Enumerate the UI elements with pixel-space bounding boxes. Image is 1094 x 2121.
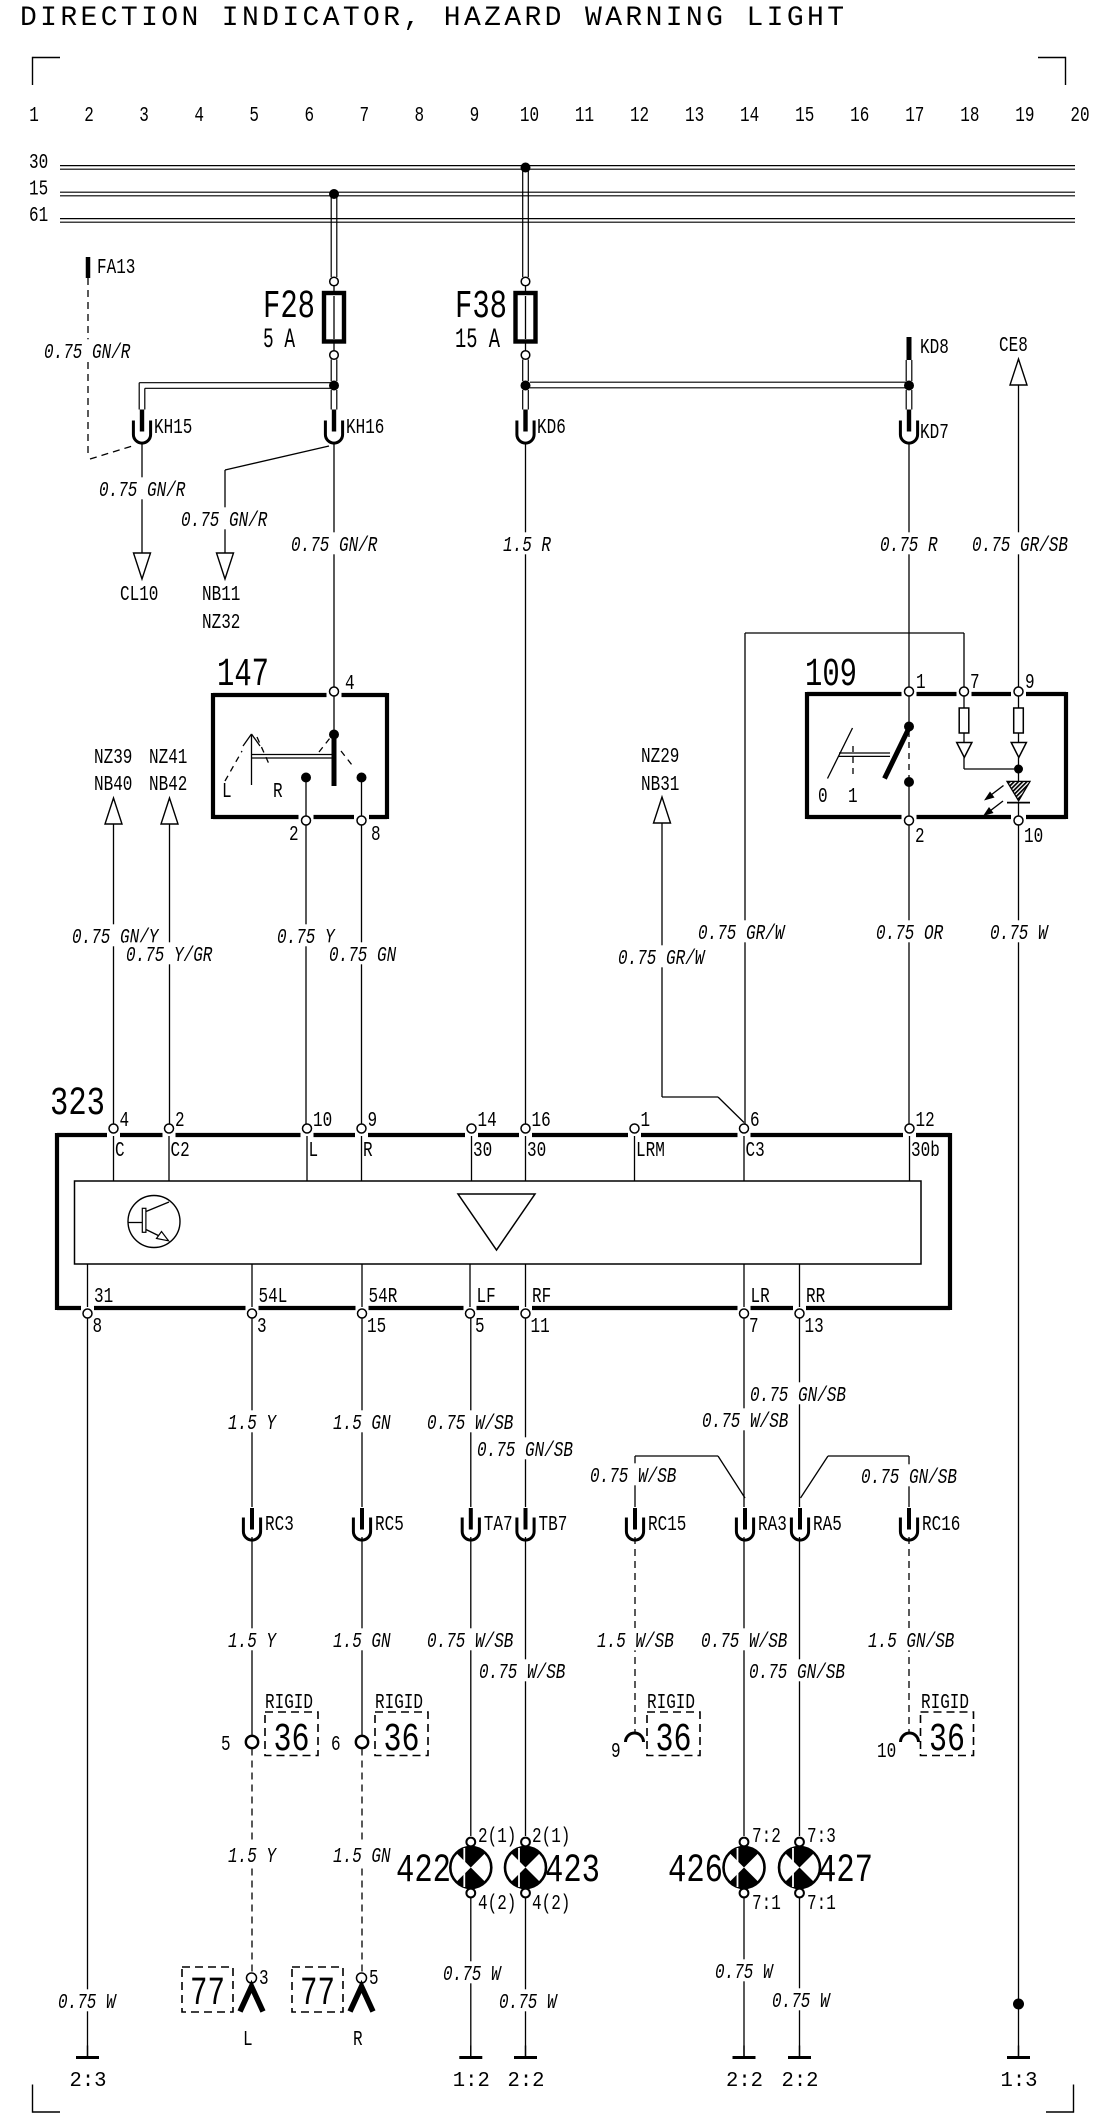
svg-text:0: 0 bbox=[818, 786, 828, 809]
svg-text:77: 77 bbox=[300, 1972, 335, 2017]
svg-text:1.5 GN/SB: 1.5 GN/SB bbox=[868, 1631, 954, 1654]
svg-text:7:1: 7:1 bbox=[752, 1893, 781, 1916]
wire RC15 to 36-9 dashed bbox=[634, 1537, 636, 1732]
terminal 2:2 c bbox=[782, 2046, 819, 2094]
svg-text:1.5 GN: 1.5 GN bbox=[333, 1631, 391, 1654]
svg-text:7: 7 bbox=[360, 105, 370, 128]
svg-text:0.75 W: 0.75 W bbox=[499, 1992, 558, 2015]
svg-text:20: 20 bbox=[1070, 105, 1089, 128]
svg-text:31: 31 bbox=[94, 1286, 113, 1309]
svg-text:2:3: 2:3 bbox=[70, 2070, 107, 2093]
svg-text:0.75 W: 0.75 W bbox=[772, 1991, 831, 2014]
323 top pin 4 C bbox=[109, 1110, 129, 1163]
wire RA5 to lamp427 bbox=[799, 1537, 801, 1836]
svg-text:36: 36 bbox=[929, 1718, 965, 1763]
svg-text:RA5: RA5 bbox=[813, 1514, 842, 1537]
label 0.75 W/SB a bbox=[425, 1410, 516, 1436]
junction at KD7 bbox=[904, 381, 914, 391]
harness 77 pin5 bbox=[292, 1967, 379, 2017]
lamp 427 bbox=[779, 1838, 873, 1898]
323 triangle bbox=[458, 1194, 535, 1250]
label 1.5 Y a bbox=[226, 1410, 279, 1436]
wire KD6 to 323 pin16 bbox=[525, 444, 527, 1125]
svg-text:LF: LF bbox=[477, 1286, 496, 1309]
svg-text:0.75 W/SB: 0.75 W/SB bbox=[427, 1413, 513, 1436]
wire RC5 to 36-6 bbox=[361, 1537, 363, 1735]
svg-text:DIRECTION INDICATOR, HAZARD WA: DIRECTION INDICATOR, HAZARD WARNING LIGH… bbox=[20, 3, 844, 34]
svg-text:18: 18 bbox=[960, 105, 979, 128]
lamp 422 bbox=[396, 1838, 491, 1898]
switch 109 box bbox=[805, 653, 1066, 819]
wire 147 pin8 to 323 pin9 bbox=[361, 825, 363, 1124]
connector KD6 bbox=[517, 410, 566, 444]
lamp 426 bbox=[668, 1838, 765, 1898]
column ruler bbox=[29, 105, 1089, 128]
147 L R labels bbox=[222, 781, 283, 804]
svg-text:0.75 W: 0.75 W bbox=[443, 1964, 502, 1987]
323 top pin 16 30 bbox=[521, 1110, 551, 1163]
junction below F38 bbox=[521, 381, 531, 391]
svg-text:CE8: CE8 bbox=[999, 335, 1028, 358]
bus 61 bbox=[29, 205, 1075, 228]
wire 109 pin10 down bbox=[1018, 825, 1020, 2056]
wire junction to KH16 bbox=[331, 390, 337, 410]
147 switch lever bbox=[329, 730, 339, 787]
connector KH15 bbox=[133, 410, 192, 444]
109 diode pin9 bbox=[1011, 743, 1026, 766]
svg-text:3: 3 bbox=[259, 1968, 269, 1991]
323 bottom pin 8 31 bbox=[83, 1286, 113, 1339]
svg-text:1.5 Y: 1.5 Y bbox=[228, 1631, 277, 1654]
svg-text:7: 7 bbox=[749, 1316, 759, 1339]
svg-text:RF: RF bbox=[532, 1286, 551, 1309]
label 1.5 GN b bbox=[331, 1628, 394, 1654]
wire 323 pin15 to RC5 bbox=[361, 1319, 363, 1508]
harness 36 pin9 bbox=[611, 1692, 700, 1764]
label 1.5 W/SB bbox=[595, 1628, 677, 1654]
svg-text:5: 5 bbox=[475, 1316, 485, 1339]
svg-text:8: 8 bbox=[371, 824, 381, 847]
svg-text:15: 15 bbox=[367, 1316, 386, 1339]
title bbox=[20, 3, 844, 34]
wire 36-5 to 77-3 dashed bbox=[251, 1749, 253, 1973]
109 LED arrows bbox=[983, 786, 1004, 817]
wire junction to KD6 bbox=[523, 390, 529, 410]
svg-text:427: 427 bbox=[818, 1849, 873, 1894]
svg-text:61: 61 bbox=[29, 205, 48, 228]
323 transistor bbox=[128, 1196, 180, 1248]
lamp427 pin labels bbox=[807, 1826, 836, 1916]
svg-text:10: 10 bbox=[520, 105, 539, 128]
label 0.75 W 31 bbox=[56, 1989, 119, 2015]
109 switch bbox=[885, 696, 915, 816]
svg-text:NB40: NB40 bbox=[94, 774, 132, 797]
svg-text:FA13: FA13 bbox=[97, 257, 135, 280]
wire KD7 to 109 pin1 bbox=[908, 444, 910, 688]
svg-text:0.75 Y: 0.75 Y bbox=[277, 927, 336, 950]
svg-text:1:3: 1:3 bbox=[1001, 2070, 1038, 2093]
svg-text:0.75 GN/SB: 0.75 GN/SB bbox=[749, 1662, 845, 1685]
bus 15 bbox=[29, 179, 1075, 202]
label 0.75 GR/W c3 bbox=[696, 920, 787, 946]
svg-text:3: 3 bbox=[257, 1316, 267, 1339]
svg-text:1.5 R: 1.5 R bbox=[503, 535, 551, 558]
arrow NZ41 NB42 bbox=[149, 747, 187, 824]
109 resistor pin9 bbox=[1014, 696, 1024, 743]
label 0.75 GN/Y bbox=[70, 924, 161, 950]
svg-text:13: 13 bbox=[685, 105, 704, 128]
wire 323 pin13 to RA5 bbox=[799, 1319, 801, 1508]
terminal 1:2 bbox=[453, 2046, 490, 2094]
svg-text:CL10: CL10 bbox=[120, 584, 158, 607]
svg-text:36: 36 bbox=[274, 1718, 310, 1763]
wire 323 pin5 to TA7 bbox=[470, 1319, 472, 1508]
svg-text:8: 8 bbox=[415, 105, 425, 128]
svg-text:7:3: 7:3 bbox=[807, 1826, 836, 1849]
323 bottom pin 3 54L bbox=[248, 1286, 288, 1339]
svg-text:5: 5 bbox=[249, 105, 259, 128]
wire 323 pin7 to RA3 bbox=[743, 1319, 745, 1508]
svg-text:2(1): 2(1) bbox=[478, 1826, 516, 1849]
connector RC5 bbox=[353, 1508, 403, 1540]
connector RA3 bbox=[736, 1508, 786, 1540]
svg-text:11: 11 bbox=[531, 1316, 550, 1339]
junction bottom right bbox=[1013, 1999, 1024, 2010]
label 0.75 GN/SB d bbox=[747, 1659, 848, 1685]
svg-text:7:2: 7:2 bbox=[752, 1826, 781, 1849]
frame corner top-left bbox=[33, 57, 61, 85]
wire F38 to junction bbox=[523, 360, 529, 382]
connector RC16 bbox=[900, 1508, 960, 1540]
svg-text:KD8: KD8 bbox=[920, 337, 949, 360]
109 LED bbox=[1007, 769, 1030, 816]
wire lamp426 down bbox=[743, 1897, 745, 2056]
svg-text:NZ41: NZ41 bbox=[149, 747, 187, 770]
svg-text:0.75 GN/R: 0.75 GN/R bbox=[181, 510, 268, 533]
svg-text:5 A: 5 A bbox=[263, 325, 295, 356]
terminal 1:3 bbox=[1001, 2046, 1038, 2094]
chevron L bbox=[240, 1987, 263, 2053]
svg-text:16: 16 bbox=[850, 105, 869, 128]
wire TB7 to lamp423 bbox=[525, 1537, 527, 1836]
label 0.75 W/SB f bbox=[699, 1628, 790, 1654]
svg-text:L: L bbox=[243, 2029, 253, 2052]
terminal FA13 bbox=[88, 257, 135, 280]
323 bottom pin 5 LF bbox=[466, 1286, 496, 1339]
wire lamp427 down bbox=[799, 1897, 801, 2056]
svg-text:L: L bbox=[222, 781, 232, 804]
svg-text:422: 422 bbox=[396, 1849, 451, 1894]
svg-text:14: 14 bbox=[740, 105, 759, 128]
label 0.75 R bbox=[878, 532, 941, 558]
connector TB7 bbox=[517, 1508, 567, 1540]
wire tap to RC16 bbox=[801, 1456, 910, 1507]
arrow NZ39 NB40 bbox=[94, 747, 132, 824]
svg-text:5: 5 bbox=[221, 1734, 231, 1757]
wire 109 pin2 to 323 pin12 bbox=[908, 825, 910, 1124]
svg-text:54L: 54L bbox=[259, 1286, 288, 1309]
svg-text:9: 9 bbox=[470, 105, 480, 128]
connector RA5 bbox=[791, 1508, 841, 1540]
svg-text:0.75 W: 0.75 W bbox=[58, 1992, 117, 2015]
connector KD7 bbox=[900, 410, 948, 446]
svg-text:36: 36 bbox=[384, 1718, 420, 1763]
svg-text:4(2): 4(2) bbox=[478, 1893, 516, 1916]
323 top pin 9 R bbox=[357, 1110, 377, 1163]
svg-text:F28: F28 bbox=[263, 285, 315, 330]
wire 323 pin8 down bbox=[87, 1319, 89, 2057]
connector RC15 bbox=[626, 1508, 686, 1540]
label 0.75 W ra5 bbox=[770, 1988, 833, 2014]
wire 109 pin7 branch bbox=[745, 633, 964, 1124]
lamp422 pin labels bbox=[478, 1826, 516, 1916]
chevron R bbox=[350, 1987, 373, 2053]
svg-text:1: 1 bbox=[29, 105, 39, 128]
wire 147 pin2 to 323 pin10 bbox=[305, 825, 307, 1124]
svg-text:2(1): 2(1) bbox=[532, 1826, 570, 1849]
svg-text:C3: C3 bbox=[746, 1140, 765, 1163]
svg-text:1: 1 bbox=[848, 786, 858, 809]
323 top pin 10 L bbox=[303, 1110, 333, 1163]
label 0.75 GN/R (KH16) bbox=[289, 532, 380, 558]
lamp423 pin labels bbox=[532, 1826, 570, 1916]
svg-text:0.75 W/SB: 0.75 W/SB bbox=[427, 1631, 513, 1654]
label 0.75 Y/GR bbox=[124, 942, 215, 968]
wire bus30 to F38 bbox=[523, 170, 529, 278]
harness 36 pin6 bbox=[331, 1692, 428, 1763]
wire lamp423 down bbox=[525, 1897, 527, 2056]
323 bottom pin 7 LR bbox=[740, 1286, 770, 1339]
wire 323 pin11 to TB7 bbox=[525, 1319, 527, 1508]
label 0.75 GR/W lrm bbox=[616, 945, 707, 971]
svg-text:14: 14 bbox=[478, 1110, 497, 1133]
flasher 323 box bbox=[50, 1082, 950, 1310]
connector KH16 bbox=[325, 410, 384, 444]
svg-text:2:2: 2:2 bbox=[726, 2070, 763, 2093]
svg-text:R: R bbox=[363, 1140, 373, 1163]
svg-text:10: 10 bbox=[313, 1110, 332, 1133]
wire 323 pin3 to RC3 bbox=[251, 1319, 253, 1508]
svg-text:0.75 W/SB: 0.75 W/SB bbox=[590, 1466, 676, 1489]
label 0.75 W/SB e bbox=[477, 1659, 568, 1685]
label 0.75 GN/SB a bbox=[475, 1437, 576, 1463]
wire RA3 to lamp426 bbox=[743, 1537, 745, 1836]
svg-text:2: 2 bbox=[84, 105, 94, 128]
svg-text:F38: F38 bbox=[455, 285, 507, 330]
svg-text:RC16: RC16 bbox=[922, 1514, 960, 1537]
svg-text:30: 30 bbox=[29, 152, 48, 175]
109 resistor pin7 bbox=[959, 696, 969, 743]
svg-text:4: 4 bbox=[194, 105, 204, 128]
109 pin 9 bbox=[1014, 672, 1035, 696]
svg-text:NZ32: NZ32 bbox=[202, 612, 240, 635]
harness 36 pin10 bbox=[877, 1692, 974, 1764]
connector KD8 bbox=[909, 337, 949, 360]
svg-text:12: 12 bbox=[916, 1110, 935, 1133]
svg-text:KD7: KD7 bbox=[920, 422, 949, 445]
terminal 2:3 bbox=[70, 2046, 107, 2094]
switch 147 box bbox=[213, 653, 387, 819]
wire lamp422 down bbox=[470, 1897, 472, 2056]
svg-text:16: 16 bbox=[532, 1110, 551, 1133]
svg-text:0.75 GN/R: 0.75 GN/R bbox=[99, 480, 186, 503]
svg-text:LRM: LRM bbox=[636, 1140, 665, 1163]
lamp 423 bbox=[505, 1838, 600, 1898]
svg-text:L: L bbox=[309, 1140, 319, 1163]
svg-text:10: 10 bbox=[1024, 826, 1043, 849]
wire RC3 to 36-5 bbox=[251, 1537, 253, 1735]
svg-text:6: 6 bbox=[331, 1734, 341, 1757]
svg-text:RA3: RA3 bbox=[758, 1514, 787, 1537]
svg-text:1.5 GN: 1.5 GN bbox=[333, 1846, 391, 1869]
fuse F28 bbox=[263, 277, 344, 359]
arrow CE8 bbox=[999, 335, 1028, 385]
svg-text:0.75 GN/R: 0.75 GN/R bbox=[291, 535, 378, 558]
323 top pin 2 C2 bbox=[165, 1110, 190, 1163]
323 bottom pin 13 RR bbox=[795, 1286, 825, 1339]
harness 77 pin3 bbox=[182, 1967, 269, 2017]
svg-text:0.75 R: 0.75 R bbox=[880, 535, 938, 558]
wire TA7 to lamp422 bbox=[470, 1537, 472, 1836]
label 0.75 GN/R (NB11) bbox=[179, 507, 270, 533]
svg-text:7:1: 7:1 bbox=[807, 1893, 836, 1916]
svg-text:1.5 Y: 1.5 Y bbox=[228, 1413, 277, 1436]
label 0.75 GN/R (FA13) bbox=[42, 339, 133, 365]
connector TA7 bbox=[462, 1508, 512, 1540]
svg-text:77: 77 bbox=[190, 1972, 225, 2017]
svg-text:0.75 OR: 0.75 OR bbox=[876, 923, 943, 946]
svg-text:2:2: 2:2 bbox=[782, 2070, 819, 2093]
svg-text:9: 9 bbox=[1025, 672, 1035, 695]
323 top pin 14 30 bbox=[467, 1110, 497, 1163]
svg-text:6: 6 bbox=[750, 1110, 760, 1133]
wire NZ29 to 323 pin6 bbox=[662, 823, 744, 1123]
svg-text:KH16: KH16 bbox=[346, 417, 384, 440]
svg-text:0.75 GN/SB: 0.75 GN/SB bbox=[477, 1440, 573, 1463]
147 position dashes bbox=[225, 737, 352, 781]
label 0.75 W/SB b bbox=[700, 1408, 791, 1434]
323 top pin 12 30b bbox=[905, 1110, 940, 1163]
arrow CL10 bbox=[120, 553, 158, 607]
svg-text:0.75 W/SB: 0.75 W/SB bbox=[702, 1411, 788, 1434]
svg-text:1: 1 bbox=[916, 672, 926, 695]
svg-text:0.75 GN: 0.75 GN bbox=[329, 945, 396, 968]
109 junction bbox=[1014, 765, 1023, 774]
wire FA13 dashed bbox=[88, 278, 134, 459]
109 actuator bbox=[818, 728, 890, 809]
svg-text:426: 426 bbox=[668, 1849, 723, 1894]
fuse F38 bbox=[455, 277, 536, 359]
svg-text:C: C bbox=[115, 1140, 125, 1163]
label 1.5 Y c bbox=[226, 1843, 279, 1869]
svg-text:2:2: 2:2 bbox=[508, 2070, 545, 2093]
svg-text:0.75 W/SB: 0.75 W/SB bbox=[701, 1631, 787, 1654]
svg-text:0.75 GR/W: 0.75 GR/W bbox=[618, 948, 706, 971]
svg-text:7: 7 bbox=[970, 672, 980, 695]
svg-text:9: 9 bbox=[611, 1741, 621, 1764]
svg-text:9: 9 bbox=[368, 1110, 378, 1133]
wire KH16 to NB11 bbox=[225, 446, 329, 553]
frame corner bottom-left bbox=[33, 2085, 61, 2113]
svg-text:15: 15 bbox=[29, 179, 48, 202]
junction on bus 30 bbox=[521, 163, 531, 173]
wire bus15 to F28 bbox=[331, 196, 337, 277]
svg-text:NZ29: NZ29 bbox=[641, 746, 679, 769]
label 1.5 Y b bbox=[226, 1628, 279, 1654]
wire NZ39 to 323 pin4 bbox=[113, 824, 115, 1124]
label 0.75 W ra3 bbox=[713, 1959, 776, 1985]
label 0.75 W tb7 bbox=[497, 1989, 560, 2015]
svg-text:RC3: RC3 bbox=[265, 1514, 294, 1537]
svg-text:RR: RR bbox=[806, 1286, 825, 1309]
svg-text:NB42: NB42 bbox=[149, 774, 187, 797]
svg-text:15: 15 bbox=[795, 105, 814, 128]
svg-text:17: 17 bbox=[905, 105, 924, 128]
svg-text:423: 423 bbox=[545, 1849, 600, 1894]
svg-text:147: 147 bbox=[217, 653, 269, 698]
wire RC16 to 36-10 dashed bbox=[908, 1537, 910, 1732]
svg-text:1.5 Y: 1.5 Y bbox=[228, 1846, 277, 1869]
svg-text:5: 5 bbox=[369, 1968, 379, 1991]
label 0.75 GR/SB bbox=[970, 532, 1071, 558]
svg-text:KH15: KH15 bbox=[154, 417, 192, 440]
147 internal wires bbox=[306, 696, 362, 816]
147 contact dots bbox=[301, 773, 367, 783]
svg-text:8: 8 bbox=[93, 1316, 103, 1339]
label 0.75 Y bbox=[275, 924, 338, 950]
147 pin 2 bbox=[289, 816, 311, 847]
wire tap to RC15 bbox=[635, 1456, 745, 1507]
svg-text:NB31: NB31 bbox=[641, 774, 679, 797]
label 0.75 GN bbox=[327, 942, 399, 968]
connector RC3 bbox=[243, 1508, 293, 1540]
junction on bus 15 bbox=[329, 189, 339, 199]
frame corner top-right bbox=[1038, 57, 1066, 85]
lamp426 pin labels bbox=[752, 1826, 781, 1916]
svg-text:0.75 GN/SB: 0.75 GN/SB bbox=[750, 1385, 846, 1408]
svg-text:30: 30 bbox=[527, 1140, 546, 1163]
svg-text:R: R bbox=[353, 2029, 363, 2052]
label 1.5 GN a bbox=[331, 1410, 394, 1436]
109 diode pin7 bbox=[957, 743, 1014, 770]
svg-text:2: 2 bbox=[915, 826, 925, 849]
svg-text:3: 3 bbox=[139, 105, 149, 128]
wire junction to KD7-KD8 bbox=[530, 360, 912, 410]
svg-text:2: 2 bbox=[175, 1110, 185, 1133]
wire KH16 to 147 pin4 bbox=[333, 444, 335, 688]
svg-text:36: 36 bbox=[656, 1718, 692, 1763]
harness 36 pin5 bbox=[221, 1692, 318, 1763]
svg-text:TB7: TB7 bbox=[539, 1514, 568, 1537]
109 pin 1 bbox=[905, 672, 926, 696]
147 actuator arrow bbox=[243, 734, 260, 785]
svg-text:0.75 W/SB: 0.75 W/SB bbox=[479, 1662, 565, 1685]
109 pin 10 bbox=[1014, 816, 1043, 849]
svg-text:15 A: 15 A bbox=[455, 325, 500, 356]
wire junction to KH15 bbox=[139, 383, 334, 410]
wire F28 to junction bbox=[331, 360, 337, 382]
svg-text:6: 6 bbox=[304, 105, 314, 128]
svg-text:1.5 GN: 1.5 GN bbox=[333, 1413, 391, 1436]
svg-text:2: 2 bbox=[289, 824, 299, 847]
svg-text:NZ39: NZ39 bbox=[94, 747, 132, 770]
147 linkage bbox=[252, 755, 333, 759]
terminal 2:2 a bbox=[508, 2046, 545, 2094]
label 0.75 W ta7 bbox=[441, 1961, 504, 1987]
svg-text:0.75 GN/SB: 0.75 GN/SB bbox=[861, 1467, 957, 1490]
svg-text:12: 12 bbox=[630, 105, 649, 128]
svg-text:30: 30 bbox=[473, 1140, 492, 1163]
